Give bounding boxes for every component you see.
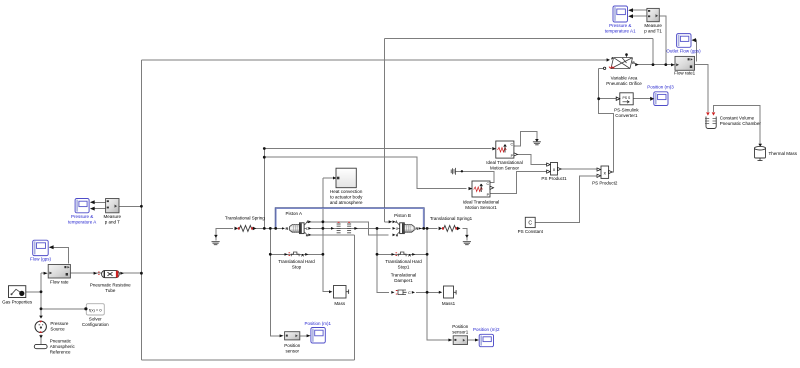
- wire sensor C to ground: [512, 132, 537, 147]
- svg-text:Position (m)2: Position (m)2: [473, 327, 500, 332]
- wire heat convection drop to mass: [323, 178, 330, 292]
- node dot hardstop1 left: [376, 253, 379, 256]
- node dot solver: [40, 307, 43, 310]
- svg-text:Translational Spring1: Translational Spring1: [430, 216, 473, 221]
- converter PS-Simulink Converter1: [616, 93, 633, 105]
- svg-text:and atmosphere: and atmosphere: [330, 200, 363, 205]
- svg-text:Position: Position: [284, 343, 301, 348]
- mass Mass1: [439, 286, 456, 298]
- svg-text:Motion Sensor: Motion Sensor: [490, 166, 520, 171]
- wire product2 output: [609, 171, 614, 173]
- scope Position (m)2: [475, 334, 494, 346]
- wire left source vertical: [40, 273, 42, 317]
- block Measure p and T1: [647, 8, 659, 21]
- node dot gas properties: [40, 290, 43, 293]
- arrow down spring left ground: [213, 234, 215, 236]
- thermal mass Thermal Mass: [755, 144, 766, 161]
- arrow into heat convection handled in icon; arrow rail mid: [355, 227, 358, 229]
- wire node A: to piston A lower port: [309, 234, 355, 236]
- wire pressure source to reference: [40, 335, 42, 345]
- source Pressure Source: [35, 316, 46, 339]
- wire position sensor to scope: [300, 335, 307, 337]
- svg-text:Translational Hard: Translational Hard: [385, 259, 422, 264]
- wire mech rail left: [256, 227, 284, 229]
- wire node A: bottom horizontal loop: [141, 359, 354, 361]
- spring Translational Spring1: [439, 225, 461, 231]
- svg-text:Position (m)3: Position (m)3: [647, 85, 674, 90]
- wire measure to scope A line 1: [92, 201, 106, 203]
- svg-text:Tube: Tube: [105, 288, 116, 293]
- node dot measure tap: [140, 205, 143, 208]
- chamber Constant Volume Pneumatic Chamber: [705, 112, 717, 128]
- svg-text:p and T: p and T: [105, 220, 120, 225]
- svg-text:Position: Position: [452, 324, 469, 329]
- wire position sensor1 to scope: [468, 339, 476, 341]
- svg-text:temperature A: temperature A: [68, 220, 96, 225]
- svg-text:Constant Volume: Constant Volume: [720, 116, 755, 121]
- svg-text:A: A: [301, 252, 304, 257]
- spring Translational Spring: [235, 225, 257, 231]
- wire converter to scope m3: [633, 98, 651, 100]
- wire sensor P to product1: [512, 154, 547, 164]
- wire rail drop to damper: [377, 228, 389, 292]
- node dot sensor feed upper: [263, 147, 266, 150]
- svg-text:C: C: [528, 221, 532, 227]
- svg-text:temperature A1: temperature A1: [605, 29, 636, 34]
- wire chamber to thermal mass: [714, 106, 761, 145]
- svg-text:Pressure: Pressure: [50, 321, 69, 326]
- svg-text:Converter1: Converter1: [615, 113, 638, 118]
- wire product1 to product2: [558, 168, 599, 170]
- wire sensors feed vertical: [263, 149, 265, 229]
- scope Outlet Flow (gps): [677, 34, 696, 48]
- node dot rail heatdrop: [322, 227, 325, 230]
- wire to PS-Simulink converter: [599, 98, 616, 100]
- svg-text:Flow rate: Flow rate: [50, 280, 69, 285]
- node dot hardstop1 right: [426, 253, 429, 256]
- wire sensor1 P to product1: [490, 172, 547, 194]
- svg-text:Ideal Translational: Ideal Translational: [486, 160, 523, 165]
- wire measure1 to scope A1 line2: [630, 15, 647, 17]
- svg-text:R: R: [286, 226, 289, 231]
- wire hard stop1 row: [377, 253, 427, 255]
- svg-text:Stop: Stop: [292, 265, 302, 270]
- svg-text:A: A: [408, 252, 411, 257]
- wire node B: top horizontal: [384, 38, 653, 40]
- wire solver configuration: [41, 308, 85, 310]
- wire rail drop to position sensor1: [427, 228, 450, 340]
- ground right spring1: [463, 235, 471, 245]
- svg-text:R: R: [415, 226, 418, 231]
- product PS Product1: [547, 163, 562, 176]
- node dot orifice line left: [652, 63, 655, 66]
- node dot hardstop right: [322, 253, 325, 256]
- piston Piston B: [393, 220, 422, 237]
- svg-text:sensor1: sensor1: [452, 330, 469, 335]
- hardstop Translational Hard Stop1: [392, 252, 416, 257]
- wire spring1 left: [462, 228, 467, 240]
- ground left spring: [212, 235, 220, 245]
- wire heat convection port: [323, 177, 334, 179]
- svg-text:Configuration: Configuration: [82, 322, 109, 327]
- wire damper to mass1: [416, 291, 440, 293]
- svg-text:PS Constant: PS Constant: [518, 229, 544, 234]
- node dot rail possensor: [269, 227, 272, 230]
- svg-text:Motion Sensor1: Motion Sensor1: [465, 205, 497, 210]
- svg-text:Pressure &: Pressure &: [71, 214, 93, 219]
- wire piston A thermal line: [308, 222, 389, 235]
- svg-text:Piston B: Piston B: [394, 213, 411, 218]
- svg-text:Outlet Flow (gps): Outlet Flow (gps): [666, 49, 701, 54]
- svg-text:Mass: Mass: [334, 301, 346, 306]
- wire spring right to rail: [252, 227, 256, 229]
- sensor Ideal Translational Motion Sensor: [492, 141, 517, 158]
- node dot tube tap: [140, 272, 143, 275]
- block Flow rate1: [671, 56, 695, 70]
- svg-text:Solver: Solver: [89, 317, 102, 322]
- reference Pneumatic Atmospheric Reference: [34, 344, 47, 348]
- svg-text:B: B: [632, 61, 635, 65]
- svg-text:Piston A: Piston A: [285, 211, 302, 216]
- node dot thermal line: [322, 220, 325, 223]
- wire left spring to ground: [216, 228, 233, 240]
- svg-text:sensor: sensor: [285, 349, 299, 354]
- svg-text:Pneumatic Orifice: Pneumatic Orifice: [606, 81, 642, 86]
- svg-text:Measure: Measure: [644, 23, 662, 28]
- scope Position (m)1: [307, 328, 326, 344]
- svg-text:Ideal Translational: Ideal Translational: [463, 200, 500, 205]
- block Measure p and T: [106, 199, 119, 213]
- svg-text:Reference: Reference: [50, 350, 71, 355]
- svg-text:Pneumatic Chamber: Pneumatic Chamber: [720, 121, 762, 126]
- node dot rail blue left: [274, 227, 277, 230]
- scope Flow (gps): [33, 240, 54, 255]
- block Heat convection to actuator body and atmosphere: [333, 168, 356, 188]
- node dot rail sensor feed: [263, 227, 266, 230]
- ground sensor1 reference: [451, 168, 455, 175]
- node dot hardstop left: [269, 253, 272, 256]
- svg-text:Thermal Mass: Thermal Mass: [769, 151, 798, 156]
- wire outlet scope tap: [693, 40, 697, 61]
- wire blue case connection: [276, 208, 424, 228]
- node dot converter branch: [597, 97, 600, 100]
- svg-text:to actuator body: to actuator body: [330, 195, 363, 200]
- hardstop Translational Hard Stop: [285, 252, 309, 257]
- sensor Ideal Translational Motion Sensor1: [469, 181, 494, 197]
- svg-text:Heat convection: Heat convection: [330, 189, 363, 194]
- svg-text:Translational: Translational: [391, 273, 417, 278]
- wire PS constant to product2: [535, 176, 598, 223]
- wire position sensor drop: [270, 228, 281, 335]
- svg-text:Position (m)1: Position (m)1: [304, 321, 331, 326]
- svg-text:Pressure &: Pressure &: [609, 23, 631, 28]
- port arrows misc: [214, 220, 392, 235]
- wire mech rail right: [420, 227, 438, 229]
- svg-text:C: C: [408, 290, 411, 295]
- svg-text:Atmospheric: Atmospheric: [50, 344, 76, 349]
- constant PS Constant: [525, 217, 535, 227]
- piston Piston A: [282, 220, 311, 237]
- svg-text:Stop1: Stop1: [398, 265, 410, 270]
- svg-text:p and T1: p and T1: [644, 29, 662, 34]
- block Position sensor1: [448, 336, 467, 345]
- svg-text:Variable Area: Variable Area: [611, 76, 638, 81]
- wire node A: right vertical of loop: [353, 235, 355, 360]
- mass Mass: [329, 286, 349, 299]
- scope Pressure & temperature A: [75, 199, 95, 213]
- valve Variable Area Pneumatic Orifice: [603, 53, 638, 69]
- svg-text:Mass1: Mass1: [442, 301, 456, 306]
- wire orifice control AR: [599, 68, 614, 172]
- tube Pneumatic Resistive Tube: [94, 270, 124, 277]
- wire hard stop row: [270, 253, 323, 255]
- product PS Product2: [597, 166, 612, 178]
- svg-text:C: C: [486, 182, 489, 186]
- svg-text:PS Product2: PS Product2: [592, 181, 618, 186]
- wire node B: vertical to piston B A port: [384, 39, 390, 222]
- wire node B: drop to orifice output line: [652, 39, 654, 65]
- node dot damper mass1: [426, 291, 429, 294]
- svg-text:Source: Source: [50, 327, 65, 332]
- block Position sensor: [280, 332, 300, 340]
- wire sensor1 C to ground: [455, 171, 494, 182]
- svg-text:PS Product1: PS Product1: [541, 176, 567, 181]
- node dot rail sensor1 drop: [426, 227, 429, 230]
- node dot sensor feed lower: [263, 156, 266, 159]
- wire measure1 to scope A1 line1: [630, 9, 647, 11]
- svg-text:Measure: Measure: [104, 214, 122, 219]
- arrow piston B A port: [389, 220, 392, 223]
- node dot rail damper drop: [376, 227, 379, 230]
- svg-text:Flow rate1: Flow rate1: [674, 71, 696, 76]
- wire measure to scope A line 2: [92, 208, 106, 210]
- node dot rail blue right: [422, 227, 425, 230]
- wire mech rail mid: [311, 227, 391, 229]
- solver Solver Configuration: [84, 304, 104, 315]
- wire sensor feed top: [264, 148, 491, 150]
- ground sensor reference: [533, 139, 541, 145]
- block Flow rate: [44, 265, 71, 279]
- node dot orifice line right: [664, 63, 667, 66]
- svg-text:Flow (gps): Flow (gps): [30, 257, 52, 262]
- wire measure1 tap: [660, 16, 666, 64]
- svg-text:PS-Simulink: PS-Simulink: [614, 108, 639, 113]
- svg-text:Gas Properties: Gas Properties: [2, 300, 33, 305]
- wire pneumatic node A: long left vertical: [140, 60, 142, 360]
- svg-text:Translational Spring: Translational Spring: [225, 216, 265, 221]
- svg-text:Translational Hard: Translational Hard: [278, 259, 315, 264]
- wire sensor1 feed: [264, 157, 466, 188]
- svg-text:f(x) = 0: f(x) = 0: [89, 307, 102, 312]
- wire flow rate left: [41, 272, 47, 274]
- svg-text:Damper1: Damper1: [394, 278, 413, 283]
- wire flow rate1 to chamber: [695, 65, 708, 112]
- svg-text:Pneumatic: Pneumatic: [50, 339, 72, 344]
- wire flow scope tap: [50, 247, 68, 263]
- svg-text:PS S: PS S: [623, 96, 631, 100]
- wire tube line: [71, 272, 142, 274]
- scope Position (m)3: [650, 92, 668, 106]
- wire node A: top horizontal to orifice A: [141, 59, 606, 61]
- wire Measure p and T tap: [119, 205, 141, 207]
- block Gas Properties: [9, 286, 26, 298]
- damper Translational Damper1: [391, 290, 415, 295]
- wire orifice B to flow rate1: [638, 64, 673, 66]
- node dot sensor1 ground stub: [461, 170, 463, 172]
- svg-text:Pneumatic Resistive: Pneumatic Resistive: [90, 283, 131, 288]
- wire gas properties: [26, 291, 41, 293]
- scope Pressure & temperature A1: [613, 6, 633, 22]
- stop elements between pistons: [331, 222, 358, 233]
- svg-text:C: C: [510, 143, 513, 147]
